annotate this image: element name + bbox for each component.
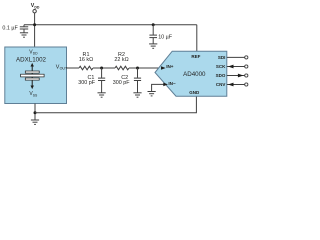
- svg-text:22 kΩ: 22 kΩ: [114, 57, 128, 63]
- ground (C2): [133, 93, 141, 97]
- svg-text:SDO: SDO: [216, 73, 226, 78]
- pin marker +IN: [161, 66, 166, 70]
- pin line SDO (arrow out): [227, 75, 245, 77]
- svg-text:REF: REF: [191, 54, 200, 59]
- IC U1 ADXL1002: [5, 47, 68, 104]
- svg-text:16 kΩ: 16 kΩ: [79, 57, 93, 63]
- terminal circle SDO: [245, 74, 248, 77]
- junction 10uF tap: [152, 23, 155, 26]
- IC U2 AD4000: [155, 51, 227, 96]
- wire top rail VDD: [24, 24, 197, 26]
- capacitor C 10uF: [149, 25, 172, 44]
- svg-text:SDI: SDI: [218, 55, 226, 60]
- junction node A: [100, 67, 103, 70]
- junction VSS/bottom rail: [34, 111, 37, 114]
- wire VOUT to R1: [67, 67, 80, 69]
- svg-text:IN+: IN+: [166, 64, 174, 69]
- junction node B: [136, 67, 139, 70]
- resistor R1: [79, 52, 93, 70]
- pin line CNV (arrow into chip): [227, 84, 245, 86]
- capacitor C1: [78, 68, 105, 93]
- capacitor C 0.1uF: [2, 25, 28, 33]
- terminal circle SDI: [245, 56, 248, 59]
- svg-text:300 pF: 300 pF: [113, 80, 130, 86]
- junction VDD/top rail: [33, 23, 36, 26]
- wire bottom rail (to AD4000 GND): [35, 96, 196, 113]
- ground (0.1uF): [20, 33, 28, 37]
- terminal circle CNV: [245, 83, 248, 86]
- resistor R2: [114, 52, 129, 70]
- svg-text:DD: DD: [33, 52, 38, 56]
- pin marker -IN: [163, 83, 168, 87]
- svg-text:0.1 µF: 0.1 µF: [2, 25, 18, 31]
- wire R2 to node B and +IN: [129, 67, 160, 69]
- pin line SCK (arrow into chip): [227, 66, 245, 68]
- svg-text:DD: DD: [34, 5, 40, 9]
- svg-text:CNV: CNV: [216, 82, 226, 87]
- ground (10uF): [149, 44, 157, 48]
- terminal circle SCK: [245, 65, 248, 68]
- svg-text:ADXL1002: ADXL1002: [16, 56, 46, 63]
- ground (-IN): [148, 92, 156, 96]
- svg-text:SCK: SCK: [216, 64, 226, 69]
- ground (C1): [98, 93, 106, 97]
- wire R1 to node A: [93, 67, 115, 69]
- capacitor C2: [113, 68, 141, 93]
- svg-text:AD4000: AD4000: [183, 71, 206, 78]
- wire -IN stub: [152, 84, 165, 91]
- svg-text:10 µF: 10 µF: [158, 34, 173, 40]
- wire VDD vertical: [34, 13, 36, 47]
- power terminal VDD: [31, 3, 40, 13]
- svg-text:GND: GND: [189, 90, 200, 95]
- MEMS sensor icon (inside ADXL1002): [21, 63, 44, 89]
- svg-text:SS: SS: [33, 93, 38, 97]
- ground (VSS): [31, 120, 39, 124]
- svg-text:IN−: IN−: [168, 81, 176, 86]
- pin line SDI: [227, 56, 245, 58]
- wire VSS: [34, 104, 36, 121]
- svg-text:300 pF: 300 pF: [78, 80, 95, 86]
- wire REF drop: [196, 25, 198, 52]
